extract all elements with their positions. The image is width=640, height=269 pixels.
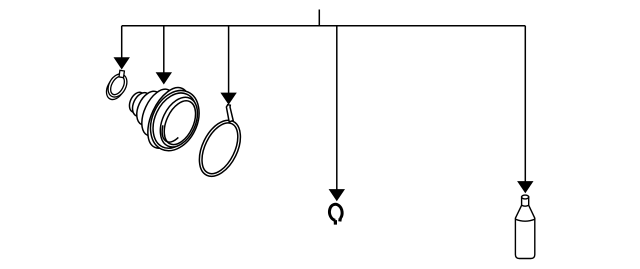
part: snap ring — [328, 203, 343, 225]
part: CV boot — [126, 81, 208, 158]
wire: drop 1 — [121, 26, 123, 59]
wire: drop 3 — [228, 26, 230, 93]
arrow 2 — [156, 72, 172, 84]
part: grease tube — [515, 195, 534, 258]
wire: horizontal bus — [122, 25, 526, 27]
arrow 5 — [517, 181, 533, 193]
part: large band clamp — [191, 105, 249, 183]
arrow 1 — [114, 57, 130, 69]
arrow 3 — [220, 93, 236, 105]
wire: drop 2 — [163, 26, 165, 73]
wire: drop 4 — [336, 26, 338, 190]
wire: top stub — [318, 10, 320, 26]
wire: drop 5 — [524, 26, 526, 182]
arrow 4 — [329, 189, 345, 201]
part: small band clamp — [103, 70, 131, 102]
